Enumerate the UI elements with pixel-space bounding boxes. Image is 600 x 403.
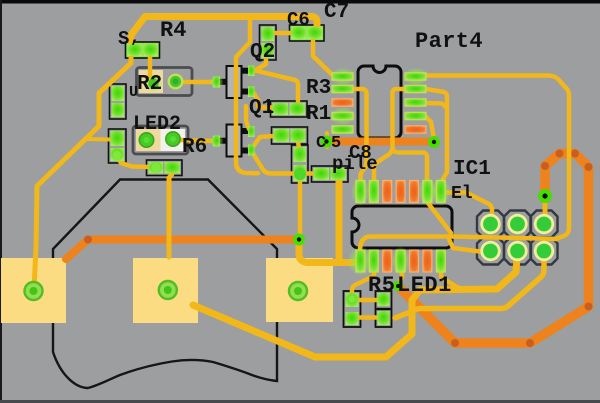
op-amp U1 DIP8 pads bbox=[330, 68, 429, 134]
svg-text:U: U bbox=[129, 84, 138, 101]
wire transistor2 to R1 left pad bbox=[253, 136, 274, 147]
svg-text:Q1: Q1 bbox=[249, 97, 274, 120]
resistor R2 pads bbox=[145, 74, 184, 93]
svg-text:R4: R4 bbox=[160, 18, 186, 43]
resistor R3 footprint pads bbox=[273, 103, 306, 115]
wire R5-LED1 bottom link bbox=[355, 315, 380, 320]
resistor R1 footprint body bbox=[272, 127, 308, 144]
resistor R5 body bbox=[344, 291, 361, 327]
wire IC1 pad7 to header pad A1 bbox=[445, 193, 492, 220]
wire DIP8 r4 right to via bbox=[426, 117, 434, 136]
svg-text:C: C bbox=[316, 134, 326, 153]
wire orange big sweep right bbox=[400, 154, 589, 344]
component pads left column body bbox=[110, 84, 127, 119]
LED LED2 pads bbox=[139, 132, 180, 147]
capacitor C8 pile footprint pads bbox=[314, 168, 347, 180]
svg-text:R1: R1 bbox=[306, 103, 331, 126]
pad square S2 bbox=[133, 258, 198, 323]
wire orange mid bus C5-C8 bbox=[327, 138, 434, 146]
resistor R3 footprint body bbox=[271, 101, 308, 117]
svg-text:LED2: LED2 bbox=[133, 113, 181, 136]
pad S2 circle bbox=[157, 279, 179, 301]
header connector pads bbox=[480, 214, 554, 261]
svg-text:R3: R3 bbox=[306, 77, 331, 100]
wire via to IC1 pad1 bbox=[299, 244, 357, 263]
orange bend dots bbox=[84, 150, 593, 348]
wire R4 left long to S1 pad bbox=[34, 55, 131, 289]
via C5 bbox=[321, 136, 333, 148]
top edge black strip bbox=[0, 0, 600, 4]
silkscreen labels bbox=[118, 1, 491, 298]
LED LED1 body bbox=[376, 291, 392, 327]
wire IC1 pad4 to via bbox=[399, 270, 402, 283]
wire DIP8 r2 left under chip to IC1 pad1 bbox=[352, 89, 367, 181]
wire C6 down to DIP8 r1 left bbox=[313, 41, 337, 76]
LED LED1 pads bbox=[378, 293, 390, 325]
wire R4 right to R2 bbox=[148, 56, 153, 79]
capacitor Q2 footprint body bbox=[260, 25, 277, 60]
wire top bus down through transistors bbox=[236, 18, 258, 173]
via C8 right bbox=[428, 136, 440, 148]
resistor R1 footprint pads bbox=[274, 129, 306, 142]
pad S3 circle bbox=[287, 280, 309, 302]
IC IC1 DIP16 body bbox=[352, 206, 452, 248]
wire pile pad down to IC1 pad1 bus bbox=[336, 180, 343, 259]
wire DIP8 r2 right down to IC1 pad7 bbox=[426, 89, 447, 179]
IC IC1 DIP16 pads bbox=[347, 177, 450, 276]
bottom edge lines bbox=[0, 400, 600, 403]
svg-text:R5: R5 bbox=[368, 273, 395, 298]
via header net bbox=[538, 189, 552, 203]
wire IC1 internal bus to header col3 bbox=[360, 237, 556, 252]
svg-text:5: 5 bbox=[331, 134, 341, 153]
YELLOW TRACES bbox=[34, 17, 569, 358]
resistor R5 pads bbox=[346, 293, 359, 325]
wire DIP8 r3 right stub bbox=[426, 103, 447, 108]
svg-text:LED1: LED1 bbox=[397, 273, 452, 298]
wire Q2 to C6 left bbox=[275, 31, 290, 36]
ORANGE TRACES bbox=[66, 142, 589, 344]
svg-text:IC1: IC1 bbox=[453, 158, 491, 181]
resistor R4 body bbox=[126, 42, 160, 58]
wire S2 to R6 right bbox=[169, 174, 172, 257]
svg-text:Q2: Q2 bbox=[250, 41, 275, 64]
capacitor C5 footprint pads bbox=[294, 147, 307, 181]
capacitor C5 footprint body bbox=[292, 145, 309, 183]
wire bottom bus to pile bbox=[250, 149, 312, 174]
wire IC1 pad2 to R5 top bbox=[352, 270, 374, 295]
wire transistor1 top to R3 pad bbox=[253, 70, 298, 101]
wire R5-LED1 top link bbox=[355, 298, 380, 303]
component pads left column pads bbox=[112, 86, 125, 117]
wire to R6 left pad bbox=[117, 156, 150, 167]
wire DIP8 r2 right under chip to IC1 pad2 bbox=[374, 89, 406, 180]
LED LED2 body bbox=[133, 126, 188, 154]
capacitor Q2 footprint pads bbox=[262, 27, 275, 58]
transistor Q1 pads bbox=[210, 126, 255, 156]
component pads left column 2 pads bbox=[111, 131, 125, 161]
wire branch to IC1 pad6 bbox=[393, 149, 428, 180]
svg-text:R2: R2 bbox=[137, 73, 162, 96]
capacitor C6 pads bbox=[292, 27, 323, 39]
resistor R2 body bbox=[137, 68, 193, 96]
wire Q2 pad to transistor1 bbox=[254, 59, 266, 71]
svg-text:El: El bbox=[451, 184, 473, 204]
svg-text:C7: C7 bbox=[324, 1, 349, 24]
svg-text:S: S bbox=[118, 28, 129, 50]
svg-text:pile: pile bbox=[332, 153, 378, 175]
resistor R4 pads bbox=[128, 44, 158, 56]
via battery bus bbox=[293, 234, 305, 246]
resistor R6 pads bbox=[149, 162, 181, 174]
pad S1 circle bbox=[23, 280, 45, 302]
pad square S3 bbox=[266, 258, 333, 322]
svg-text:Part4: Part4 bbox=[415, 29, 483, 54]
wire S2 long bottom bus to header pad B2 bbox=[193, 256, 517, 357]
resistor R6 body bbox=[147, 160, 183, 176]
part silhouette board outline bbox=[53, 180, 277, 389]
capacitor C6 body bbox=[290, 25, 325, 41]
left edge black strip bbox=[0, 0, 2, 403]
wire DIP8 r1 right around to header bbox=[426, 76, 569, 240]
wire via C5 stub bbox=[325, 133, 329, 147]
transistor Q2 pads bbox=[210, 65, 255, 97]
transistor Q2 SOT23 body bbox=[220, 66, 248, 98]
svg-text:R6: R6 bbox=[182, 136, 207, 159]
pad square S1 bbox=[1, 258, 66, 323]
wire stub to comp2 top bbox=[86, 137, 110, 142]
wire via to header pad C1 bbox=[543, 203, 548, 218]
component pads left column 2 body bbox=[109, 129, 127, 163]
wire IC1 pad7 bottom to bus bbox=[441, 272, 462, 289]
wire LED2 to transistor2 bbox=[180, 140, 214, 141]
wire orange battery bus left bbox=[66, 240, 296, 260]
svg-text:C6: C6 bbox=[287, 9, 310, 31]
wire transistor2 top stub bbox=[246, 106, 249, 129]
wire R2 to Q1 transistor base bbox=[178, 80, 215, 85]
wire transistor1 bottom to R3 left pad bbox=[253, 92, 274, 108]
wire header pad C2 to LED1 bbox=[395, 253, 544, 318]
wire via up to C5 comp bbox=[298, 181, 303, 234]
via LED1 net bbox=[393, 281, 403, 291]
capacitor C8 pile footprint body bbox=[312, 166, 349, 182]
header connector octagons bbox=[477, 211, 558, 265]
transistor Q1 SOT23 body bbox=[220, 125, 248, 157]
svg-text:,: , bbox=[130, 29, 140, 48]
op-amp U1 DIP8 body bbox=[358, 66, 401, 138]
wire IC1 corner to header pad A2 bbox=[449, 239, 486, 252]
wire top bus to C6 bbox=[131, 17, 317, 50]
wire R1 right to C5 comp bbox=[298, 141, 299, 149]
wire IC1 pad6 internal diagonal bbox=[428, 203, 451, 233]
